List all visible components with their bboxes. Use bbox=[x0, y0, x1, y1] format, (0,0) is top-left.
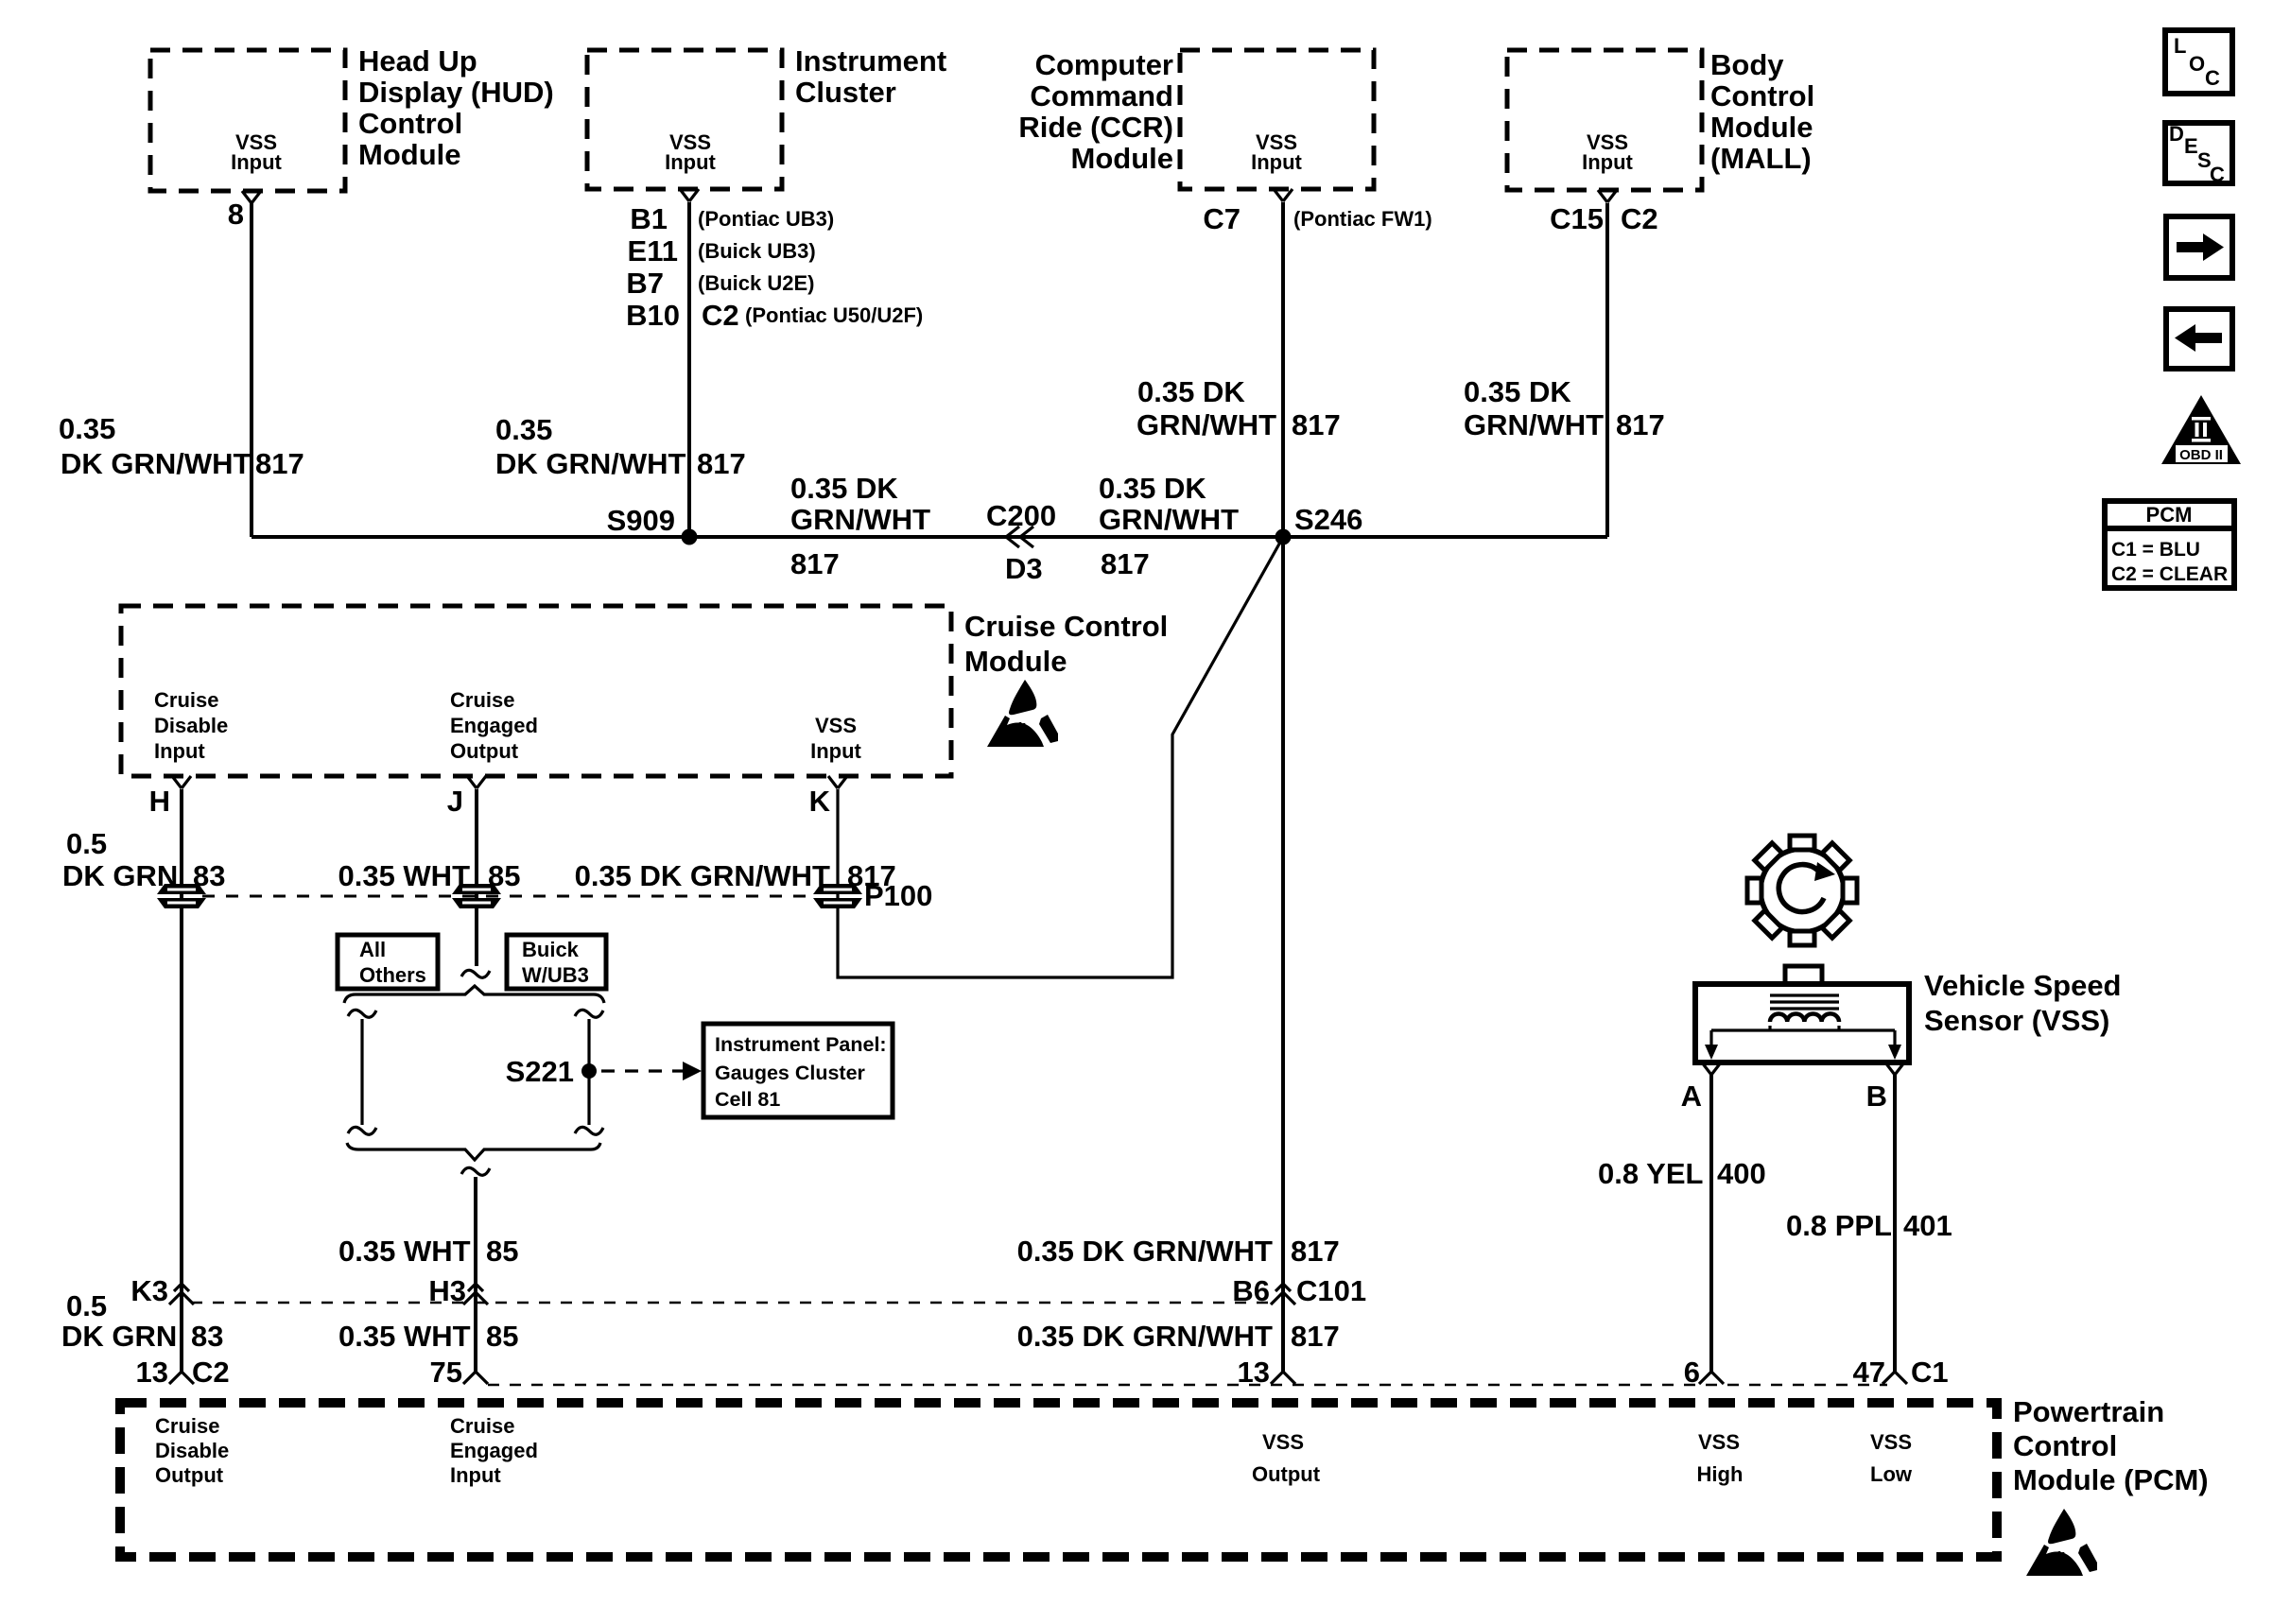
wire label 0.5 DK GRN 83 (H lower) bbox=[61, 1289, 223, 1353]
module: Instrument Cluster dashed box bbox=[587, 50, 782, 189]
wire label 0.35 WHT 85 (above H3) bbox=[338, 1235, 518, 1268]
svg-text:Output: Output bbox=[1252, 1462, 1321, 1486]
svg-text:817: 817 bbox=[1101, 547, 1150, 580]
wire label 0.8 YEL 400 bbox=[1598, 1157, 1766, 1190]
svg-text:0.35 DK: 0.35 DK bbox=[1099, 472, 1206, 505]
svg-text:Input: Input bbox=[810, 739, 861, 763]
legend: forward arrow box bbox=[2166, 216, 2232, 278]
legend: OBD II triangle bbox=[2161, 395, 2241, 464]
svg-text:L: L bbox=[2174, 34, 2186, 58]
svg-text:13: 13 bbox=[136, 1356, 168, 1389]
svg-text:O: O bbox=[2189, 52, 2205, 76]
svg-text:Input: Input bbox=[231, 150, 282, 174]
svg-text:Gauges Cluster: Gauges Cluster bbox=[715, 1062, 866, 1084]
svg-text:0.5: 0.5 bbox=[66, 1289, 107, 1322]
Vehicle Speed Sensor title bbox=[1924, 969, 2122, 1037]
PCM pin 6 (VSS high) bbox=[1684, 1356, 1724, 1389]
svg-text:H3: H3 bbox=[428, 1274, 466, 1307]
wire label 0.35 WHT 85 (below H3) bbox=[338, 1320, 518, 1353]
PCM VSS High pin label bbox=[1697, 1430, 1744, 1486]
VSS reluctor gear symbol bbox=[1747, 836, 1857, 945]
VSS internal leads with arrows bbox=[1705, 1026, 1901, 1060]
svg-text:Output: Output bbox=[450, 739, 519, 763]
BCM module title bbox=[1710, 48, 1814, 175]
wire: VSS low, B to PCM 47 bbox=[1893, 1075, 1897, 1372]
svg-text:C2: C2 bbox=[1621, 202, 1658, 235]
svg-text:K: K bbox=[809, 785, 831, 818]
svg-text:Control: Control bbox=[1710, 79, 1814, 112]
connector pin K3 (C101, H wire) bbox=[130, 1274, 194, 1307]
svg-text:400: 400 bbox=[1717, 1157, 1766, 1190]
svg-text:(Buick U2E): (Buick U2E) bbox=[698, 271, 814, 295]
svg-text:0.35: 0.35 bbox=[495, 413, 552, 446]
wire label 0.35 DK GRN/WHT 817 (cluster drop) bbox=[495, 413, 746, 480]
legend: LOC box bbox=[2165, 30, 2232, 94]
svg-text:Engaged: Engaged bbox=[450, 1439, 538, 1462]
Cruise VSS Input pin label bbox=[810, 714, 861, 763]
svg-text:Low: Low bbox=[1870, 1462, 1913, 1486]
PCM pin 13 C2 (cruise disable) bbox=[136, 1356, 230, 1389]
svg-text:401: 401 bbox=[1903, 1209, 1952, 1242]
wire: horizontal 817 bus bbox=[252, 535, 1607, 539]
Cruise Control Module title bbox=[964, 610, 1168, 678]
svg-text:Instrument: Instrument bbox=[795, 44, 946, 78]
svg-text:Computer: Computer bbox=[1035, 48, 1173, 81]
svg-text:High: High bbox=[1697, 1462, 1744, 1486]
svg-text:A: A bbox=[1681, 1080, 1702, 1113]
PCM connector C1 dashed line bbox=[488, 1384, 1887, 1387]
legend: back arrow box bbox=[2166, 309, 2232, 369]
svg-text:0.35: 0.35 bbox=[59, 412, 115, 445]
module HUD: Head Up Display (HUD) Control Module dashed box bbox=[150, 50, 345, 191]
svg-text:VSS: VSS bbox=[815, 714, 857, 737]
VSS pickup core lines bbox=[1770, 995, 1839, 1009]
Instrument Cluster VSS Input pin label bbox=[665, 130, 716, 174]
svg-text:Cruise: Cruise bbox=[155, 1414, 219, 1438]
svg-text:OBD II: OBD II bbox=[2179, 447, 2223, 463]
svg-text:E: E bbox=[2184, 134, 2198, 158]
wire label 0.8 PPL 401 bbox=[1786, 1209, 1952, 1242]
svg-text:0.35 DK GRN/WHT: 0.35 DK GRN/WHT bbox=[575, 859, 830, 892]
svg-text:Sensor (VSS): Sensor (VSS) bbox=[1924, 1004, 2109, 1037]
svg-text:Cruise: Cruise bbox=[450, 688, 514, 712]
svg-text:Module: Module bbox=[358, 138, 461, 171]
svg-text:K3: K3 bbox=[130, 1274, 168, 1307]
svg-text:S221: S221 bbox=[506, 1055, 574, 1088]
svg-text:All: All bbox=[359, 938, 386, 961]
svg-text:B1: B1 bbox=[630, 202, 668, 235]
svg-text:E11: E11 bbox=[628, 234, 678, 268]
pin C15 / C2 (BCM) bbox=[1550, 190, 1658, 235]
legend: PCM connector color table bbox=[2105, 501, 2234, 588]
svg-text:Ride (CCR): Ride (CCR) bbox=[1018, 111, 1173, 144]
svg-text:C2: C2 bbox=[702, 299, 739, 332]
svg-text:817: 817 bbox=[1616, 408, 1665, 441]
svg-text:Command: Command bbox=[1030, 79, 1173, 112]
svg-text:C15: C15 bbox=[1550, 202, 1604, 235]
svg-text:0.35 DK GRN/WHT: 0.35 DK GRN/WHT bbox=[1017, 1320, 1273, 1353]
option box: Buick W/UB3 bbox=[507, 935, 606, 989]
svg-text:Instrument Panel:: Instrument Panel: bbox=[715, 1033, 887, 1056]
svg-text:GRN/WHT: GRN/WHT bbox=[1136, 408, 1276, 441]
svg-text:Module: Module bbox=[1071, 142, 1174, 175]
svg-text:Others: Others bbox=[359, 963, 426, 987]
svg-text:Module (PCM): Module (PCM) bbox=[2013, 1463, 2209, 1496]
svg-text:B7: B7 bbox=[626, 267, 664, 300]
wire break (J wire above options) bbox=[461, 970, 490, 977]
module: Body Control Module (MALL) dashed box bbox=[1507, 50, 1702, 190]
pin 8 (HUD) bbox=[228, 191, 261, 231]
svg-text:B: B bbox=[1866, 1080, 1887, 1113]
svg-text:0.35 WHT: 0.35 WHT bbox=[338, 859, 470, 892]
CCR module title bbox=[1018, 48, 1173, 175]
ESD sensitive symbol (cruise module) bbox=[987, 680, 1058, 747]
svg-text:C7: C7 bbox=[1203, 202, 1241, 235]
svg-text:817: 817 bbox=[697, 447, 746, 480]
wire label 0.35 DK GRN/WHT 817 (BCM drop) bbox=[1464, 375, 1665, 441]
svg-text:PCM: PCM bbox=[2146, 503, 2193, 527]
svg-text:0.5: 0.5 bbox=[66, 827, 107, 860]
svg-text:VSS: VSS bbox=[1262, 1430, 1304, 1454]
svg-text:(Pontiac UB3): (Pontiac UB3) bbox=[698, 207, 834, 231]
PCM title bbox=[2013, 1395, 2209, 1496]
svg-text:85: 85 bbox=[486, 1235, 518, 1268]
svg-text:Input: Input bbox=[154, 739, 205, 763]
BCM VSS Input pin label bbox=[1582, 130, 1633, 174]
pin C7 (CCR) bbox=[1203, 189, 1431, 235]
CCR VSS Input pin label bbox=[1251, 130, 1302, 174]
svg-text:0.35 WHT: 0.35 WHT bbox=[338, 1320, 471, 1353]
wire label 0.35 DK GRN/WHT 817 (below B6) bbox=[1017, 1320, 1340, 1353]
svg-text:Body: Body bbox=[1710, 48, 1784, 81]
svg-text:H: H bbox=[149, 785, 170, 818]
Instrument Cluster title bbox=[795, 44, 946, 109]
svg-text:817: 817 bbox=[255, 447, 304, 480]
svg-text:Cruise: Cruise bbox=[450, 1414, 514, 1438]
svg-text:C200: C200 bbox=[986, 499, 1056, 532]
option box: All Others bbox=[338, 935, 438, 989]
legend: DESC box bbox=[2165, 122, 2232, 186]
svg-text:Input: Input bbox=[450, 1463, 501, 1487]
svg-text:Vehicle Speed: Vehicle Speed bbox=[1924, 969, 2122, 1002]
wire label 0.35 DK GRN/WHT 817 (right of C200) bbox=[1099, 472, 1239, 580]
module: Computer Command Ride (CCR) Module dashed box bbox=[1180, 50, 1374, 189]
svg-text:0.35 DK: 0.35 DK bbox=[1464, 375, 1571, 408]
PCM pin 75 (cruise engaged) bbox=[430, 1356, 488, 1389]
svg-text:83: 83 bbox=[191, 1320, 223, 1353]
svg-text:C: C bbox=[2205, 66, 2220, 90]
svg-text:S909: S909 bbox=[607, 504, 675, 537]
PCM VSS Low pin label bbox=[1870, 1430, 1913, 1486]
svg-text:(Pontiac FW1): (Pontiac FW1) bbox=[1293, 207, 1432, 231]
svg-text:Control: Control bbox=[2013, 1429, 2117, 1462]
reference box: Instrument Panel Gauges Cluster Cell 81 bbox=[703, 1024, 893, 1117]
connector pin H3 (C101, J wire) bbox=[428, 1274, 488, 1307]
svg-text:0.8 PPL: 0.8 PPL bbox=[1786, 1209, 1892, 1242]
PCM Cruise Disable Output pin label bbox=[155, 1414, 229, 1487]
svg-text:Cruise Control: Cruise Control bbox=[964, 610, 1168, 643]
svg-text:75: 75 bbox=[430, 1356, 462, 1389]
wire label 0.35 DK GRN/WHT 817 (HUD drop) bbox=[59, 412, 304, 480]
svg-text:Cruise: Cruise bbox=[154, 688, 218, 712]
svg-text:0.35 DK: 0.35 DK bbox=[790, 472, 898, 505]
splice S246 bbox=[1275, 503, 1363, 545]
wire: Instrument Cluster VSS input drop, circuit 817 bbox=[687, 202, 691, 537]
svg-text:B6: B6 bbox=[1232, 1274, 1270, 1307]
svg-text:GRN/WHT: GRN/WHT bbox=[1099, 503, 1239, 536]
wire label 0.35 DK GRN/WHT 817 (K) bbox=[575, 859, 896, 892]
svg-text:C2: C2 bbox=[192, 1356, 230, 1389]
svg-text:13: 13 bbox=[1238, 1356, 1270, 1389]
ESD sensitive symbol (PCM) bbox=[2026, 1509, 2097, 1576]
wire label 0.35 DK GRN/WHT 817 (above B6) bbox=[1017, 1235, 1340, 1268]
wire: HUD VSS input drop, circuit 817 bbox=[250, 203, 253, 537]
svg-text:S246: S246 bbox=[1294, 503, 1362, 536]
svg-text:(Pontiac U50/U2F): (Pontiac U50/U2F) bbox=[745, 303, 923, 327]
pin A (VSS) bbox=[1681, 1063, 1721, 1113]
connector C200 pass-through with D3 bbox=[986, 499, 1056, 585]
pin K (cruise) bbox=[809, 776, 847, 818]
svg-text:C1: C1 bbox=[1911, 1356, 1949, 1389]
svg-text:Display (HUD): Display (HUD) bbox=[358, 76, 554, 109]
connector pin B6 / C101 label (VSS output wire) bbox=[1232, 1274, 1366, 1307]
svg-text:D: D bbox=[2169, 122, 2184, 146]
svg-text:C2 = CLEAR: C2 = CLEAR bbox=[2111, 563, 2228, 585]
svg-text:Cluster: Cluster bbox=[795, 76, 896, 109]
svg-text:(MALL): (MALL) bbox=[1710, 142, 1812, 175]
dashed reference arrow from S221 bbox=[601, 1062, 702, 1080]
svg-text:Control: Control bbox=[358, 107, 462, 140]
svg-text:DK GRN: DK GRN bbox=[61, 1320, 177, 1353]
brace over option branches bbox=[344, 986, 604, 1003]
svg-text:85: 85 bbox=[486, 1320, 518, 1353]
module: Powertrain Control Module (PCM) heavy dashed box bbox=[120, 1403, 1997, 1557]
option branch wire (All Others) bbox=[348, 1010, 376, 1134]
svg-text:Input: Input bbox=[1251, 150, 1302, 174]
svg-text:VSS: VSS bbox=[1870, 1430, 1912, 1454]
PCM pin 13 (VSS output) bbox=[1238, 1356, 1295, 1389]
wire label 0.35 DK GRN/WHT 817 (left of C200) bbox=[790, 472, 930, 580]
svg-text:(Buick UB3): (Buick UB3) bbox=[698, 239, 816, 263]
option branch wire (Buick W/UB3) with splice S221 bbox=[506, 1010, 603, 1134]
Cruise Engaged Output pin label bbox=[450, 688, 538, 763]
wire: VSS high, A to PCM 6 bbox=[1709, 1075, 1713, 1372]
PCM VSS Output pin label bbox=[1252, 1430, 1321, 1486]
svg-text:Powertrain: Powertrain bbox=[2013, 1395, 2164, 1428]
svg-text:GRN/WHT: GRN/WHT bbox=[790, 503, 930, 536]
svg-text:Input: Input bbox=[1582, 150, 1633, 174]
svg-text:W/UB3: W/UB3 bbox=[522, 963, 589, 987]
Vehicle Speed Sensor (VSS) body bbox=[1695, 966, 1909, 1063]
svg-text:P100: P100 bbox=[864, 879, 932, 912]
HUD module title bbox=[358, 44, 554, 171]
brace under option branches bbox=[347, 1143, 600, 1160]
svg-text:Module: Module bbox=[964, 645, 1067, 678]
svg-text:817: 817 bbox=[1291, 1235, 1340, 1268]
svg-text:VSS: VSS bbox=[1698, 1430, 1740, 1454]
svg-text:D3: D3 bbox=[1005, 552, 1043, 585]
svg-text:C101: C101 bbox=[1296, 1274, 1366, 1307]
svg-text:6: 6 bbox=[1684, 1356, 1700, 1389]
Cruise Disable Input pin label bbox=[154, 688, 228, 763]
pin B (VSS) bbox=[1866, 1063, 1904, 1113]
svg-text:817: 817 bbox=[1291, 1320, 1340, 1353]
connector C101 pass-through line bbox=[191, 1302, 1272, 1304]
svg-text:817: 817 bbox=[1292, 408, 1341, 441]
svg-text:J: J bbox=[447, 785, 463, 818]
VSS coil bbox=[1770, 1013, 1839, 1022]
pin J (cruise) bbox=[447, 776, 486, 818]
HUD VSS Input pin label bbox=[231, 130, 282, 174]
pin B1/E11/B7/B10-C2 (Instrument Cluster) bbox=[626, 189, 923, 332]
PCM pin 47 C1 (VSS low) bbox=[1853, 1356, 1949, 1389]
svg-text:8: 8 bbox=[228, 198, 244, 231]
svg-text:DK GRN/WHT: DK GRN/WHT bbox=[495, 447, 686, 480]
wire label 0.5 DK GRN 83 (H upper) bbox=[62, 827, 225, 892]
svg-text:0.35 WHT: 0.35 WHT bbox=[338, 1235, 471, 1268]
PCM Cruise Engaged Input pin label bbox=[450, 1414, 538, 1487]
svg-text:Disable: Disable bbox=[154, 714, 228, 737]
wire: CCR VSS input drop, circuit 817 bbox=[1281, 202, 1285, 537]
svg-text:0.35 DK: 0.35 DK bbox=[1137, 375, 1245, 408]
svg-text:817: 817 bbox=[790, 547, 840, 580]
svg-text:0.35 DK GRN/WHT: 0.35 DK GRN/WHT bbox=[1017, 1235, 1273, 1268]
wire label 0.35 DK GRN/WHT 817 (CCR drop) bbox=[1136, 375, 1341, 441]
wire: cruise VSS input K to S246 bbox=[838, 539, 1282, 977]
wire: VSS output from S246 to PCM pin 13 bbox=[1281, 537, 1285, 1372]
wire: cruise disable, H to PCM 13/C2 bbox=[180, 789, 183, 1372]
svg-text:Buick: Buick bbox=[522, 938, 580, 961]
module: Cruise Control Module dashed box bbox=[121, 606, 951, 776]
svg-text:DK GRN: DK GRN bbox=[62, 859, 178, 892]
svg-text:Input: Input bbox=[665, 150, 716, 174]
svg-text:Output: Output bbox=[155, 1463, 224, 1487]
connector P100 pass-through row bbox=[157, 879, 932, 912]
svg-text:B10: B10 bbox=[626, 299, 680, 332]
wire: cruise engaged, J drop to break bbox=[475, 789, 478, 966]
svg-text:Disable: Disable bbox=[155, 1439, 229, 1462]
svg-text:Module: Module bbox=[1710, 111, 1813, 144]
splice S909 bbox=[607, 504, 698, 545]
wire: BCM VSS input drop, circuit 817 bbox=[1605, 203, 1609, 537]
pin H (cruise) bbox=[149, 776, 191, 818]
svg-text:Engaged: Engaged bbox=[450, 714, 538, 737]
svg-text:Cell 81: Cell 81 bbox=[715, 1088, 780, 1111]
svg-text:C: C bbox=[2210, 163, 2225, 186]
svg-text:Head Up: Head Up bbox=[358, 44, 477, 78]
svg-text:47: 47 bbox=[1853, 1356, 1885, 1389]
wire label 0.35 WHT 85 (J upper) bbox=[338, 859, 520, 892]
svg-text:GRN/WHT: GRN/WHT bbox=[1464, 408, 1604, 441]
svg-text:DK GRN/WHT: DK GRN/WHT bbox=[61, 447, 252, 480]
svg-text:0.8 YEL: 0.8 YEL bbox=[1598, 1157, 1703, 1190]
wire break (J wire resumes) bbox=[461, 1167, 490, 1372]
svg-text:C1 = BLU: C1 = BLU bbox=[2111, 539, 2200, 561]
